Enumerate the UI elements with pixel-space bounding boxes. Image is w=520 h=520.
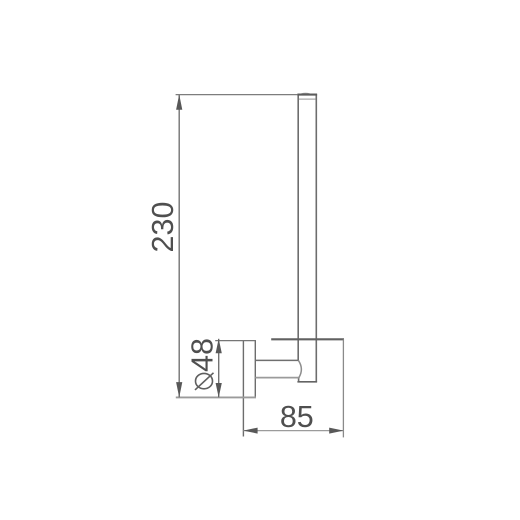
230 bottom arrow [176, 382, 182, 397]
rod right edge [315, 94, 317, 382]
Ø48 top arrow [216, 339, 222, 354]
arm rounded end cap arc [298, 360, 301, 377]
svg-text:85: 85 [280, 400, 314, 434]
rod bottom edge [297, 381, 317, 383]
rod top cap [297, 93, 317, 99]
dimension text Ø48 [186, 338, 220, 390]
85 right extension line [342, 339, 344, 437]
arm bottom edge [255, 377, 299, 379]
85 upper extension line (thick, from fixture to right extension) [271, 338, 344, 340]
85 dimension line [243, 430, 343, 432]
85 left arrow [243, 428, 257, 434]
230 top extension line (to rod top) [176, 94, 298, 96]
svg-text:230: 230 [146, 202, 180, 253]
svg-text:48: 48 [186, 338, 220, 372]
230 top arrow [176, 94, 182, 109]
flange plate top edge + Ø48 top extension line [215, 340, 256, 342]
230 dimension line [178, 95, 180, 398]
85 right arrow [329, 428, 343, 434]
flange plate bottom edge + 230/Ø48 bottom extension line [176, 396, 256, 398]
arm top edge [255, 359, 298, 361]
flange plate right edge [254, 340, 256, 397]
flange plate left edge (continues down as extension line for 85) [242, 340, 244, 437]
Ø48 dimension line [218, 339, 220, 398]
Ø48 bottom arrow [216, 383, 222, 398]
rod left edge [297, 94, 299, 382]
